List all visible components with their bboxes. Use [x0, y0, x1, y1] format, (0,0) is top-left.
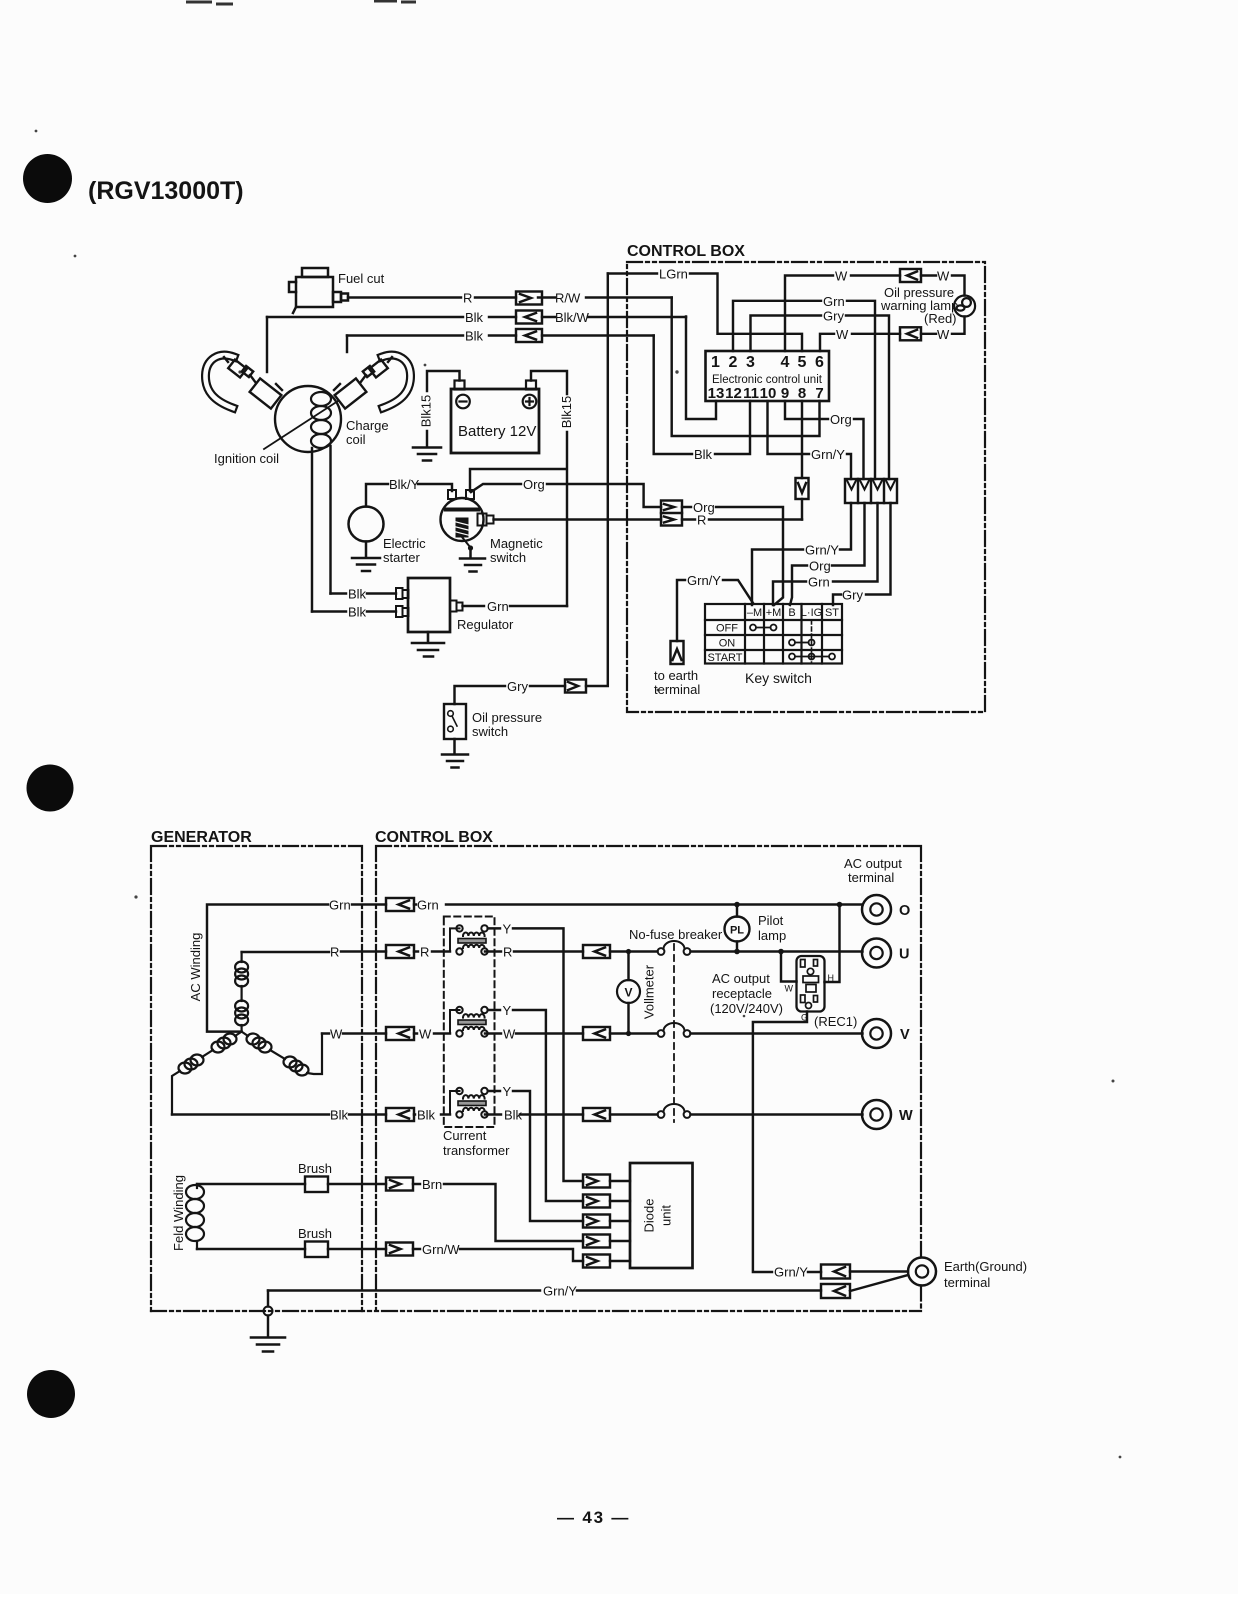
control box border (bottom diagram)	[151, 846, 921, 1311]
wire Blk/W to pin13	[686, 317, 716, 420]
svg-text:Electric: Electric	[383, 536, 426, 551]
svg-text:Y: Y	[503, 921, 512, 936]
generator border (bottom diagram)	[151, 846, 362, 1311]
wire brush2 row GrnW	[197, 1249, 583, 1261]
svg-text:OFF: OFF	[716, 623, 738, 635]
battery 12V	[451, 381, 539, 454]
wire receptacle H	[825, 905, 840, 983]
connector Blk row3	[516, 329, 542, 342]
svg-text:terminal: terminal	[944, 1275, 990, 1290]
connector GrnY earth 2	[821, 1284, 850, 1298]
wire Grn row (pin2)	[733, 301, 875, 479]
svg-text:Charge: Charge	[346, 418, 389, 433]
svg-text:–M: –M	[747, 607, 762, 619]
current transformer dashed box	[444, 917, 495, 1128]
svg-text:Blk: Blk	[694, 447, 713, 462]
connector inline pin8	[796, 478, 809, 499]
wire W row1 to lamp	[785, 276, 965, 352]
svg-text:L·IG: L·IG	[801, 607, 822, 619]
no-fuse breaker pole U	[658, 941, 691, 955]
connector R 1	[386, 945, 414, 958]
svg-text:switch: switch	[472, 724, 508, 739]
svg-text:Oil pressure: Oil pressure	[472, 710, 542, 725]
receptacle pin letters	[785, 973, 835, 1023]
svg-text:B: B	[788, 607, 795, 619]
wire left cap drop	[266, 317, 268, 372]
wire Gry row	[455, 274, 608, 705]
svg-text:— 43 —: — 43 —	[557, 1508, 630, 1527]
svg-text:W: W	[330, 1027, 343, 1042]
connector W row2	[900, 327, 921, 340]
svg-text:R: R	[503, 945, 512, 960]
earth ground terminal	[908, 1258, 936, 1286]
ground (oil pressure switch)	[442, 739, 468, 768]
wire Grn row (control box)	[414, 903, 863, 905]
control box border (top diagram)	[627, 262, 985, 712]
svg-text:Grn/Y: Grn/Y	[543, 1284, 577, 1299]
svg-text:+M: +M	[766, 607, 782, 619]
svg-text:3: 3	[746, 354, 755, 371]
key switch header labels	[707, 607, 839, 664]
svg-text:transformer: transformer	[443, 1143, 510, 1158]
wire pin10 GrnY row	[768, 401, 852, 479]
svg-text:(REC1): (REC1)	[814, 1014, 857, 1029]
current transformer 1	[450, 925, 488, 955]
wire Blk label row to pin11	[654, 336, 750, 455]
svg-text:Brn: Brn	[422, 1177, 442, 1192]
svg-text:Blk/Y: Blk/Y	[389, 477, 420, 492]
connector Blk/W	[516, 311, 542, 324]
svg-text:Brush: Brush	[298, 1161, 332, 1176]
junction dot receptacle H tap	[837, 902, 843, 908]
svg-text:11: 11	[743, 385, 759, 402]
ignition coil circle	[275, 386, 341, 452]
svg-text:Blk: Blk	[417, 1108, 436, 1123]
svg-text:W: W	[937, 269, 950, 284]
svg-text:Ignition coil: Ignition coil	[214, 451, 279, 466]
wire receptacle G to GrnY	[753, 1012, 821, 1273]
svg-text:unit: unit	[658, 1205, 673, 1226]
electronic control unit	[706, 351, 830, 401]
wire Grn from regulator	[463, 605, 568, 607]
wire LGrn row	[608, 274, 802, 352]
oil pressure warning lamp	[954, 296, 975, 317]
svg-text:Grn/Y: Grn/Y	[687, 573, 721, 588]
ECU pin numbers top	[708, 354, 824, 402]
connector W 1	[386, 1027, 414, 1040]
connector Gry	[565, 680, 586, 693]
svg-text:Org: Org	[523, 477, 545, 492]
svg-text:Blk: Blk	[330, 1108, 349, 1123]
wire Grn key row	[773, 503, 878, 605]
svg-text:G: G	[801, 1013, 808, 1023]
svg-text:Gry: Gry	[842, 588, 863, 603]
spark plug cap left	[205, 355, 282, 408]
wire receptacle W	[781, 952, 797, 982]
connector Blk 2	[583, 1108, 610, 1121]
svg-text:R: R	[463, 291, 472, 306]
key contacts START	[789, 654, 835, 660]
current transformer 2	[450, 1007, 488, 1037]
AC output terminal W	[862, 1100, 891, 1129]
svg-text:R: R	[330, 945, 339, 960]
connector GrnW	[386, 1243, 413, 1256]
svg-text:W: W	[899, 1108, 913, 1124]
wire Y3	[488, 1091, 583, 1221]
connector Blk 1	[386, 1108, 414, 1121]
wire Org from magnetic switch	[471, 484, 661, 507]
svg-text:5: 5	[798, 354, 807, 371]
connector bank x4	[845, 479, 897, 503]
svg-text:Current: Current	[443, 1128, 487, 1143]
svg-text:R: R	[420, 945, 429, 960]
wire R row	[242, 950, 863, 953]
svg-text:coil: coil	[346, 432, 366, 447]
svg-text:2: 2	[729, 354, 738, 371]
svg-text:W: W	[836, 327, 849, 342]
svg-text:Grn/W: Grn/W	[422, 1242, 460, 1257]
svg-text:switch: switch	[490, 550, 526, 565]
svg-text:AC output: AC output	[844, 856, 902, 871]
wire Gry row (pin3)	[751, 316, 890, 480]
svg-text:GENERATOR: GENERATOR	[151, 829, 252, 846]
svg-text:Blk15: Blk15	[559, 396, 574, 429]
connector W row1	[900, 269, 921, 282]
svg-text:V: V	[900, 1027, 910, 1043]
svg-text:Pilot: Pilot	[758, 913, 784, 928]
regulator	[396, 578, 463, 632]
svg-text:Electronic control unit: Electronic control unit	[712, 374, 823, 386]
wire Y1	[488, 928, 583, 1181]
svg-text:Magnetic: Magnetic	[490, 536, 543, 551]
svg-text:Org: Org	[830, 412, 852, 427]
svg-text:12: 12	[725, 385, 742, 402]
scan specks	[35, 130, 1122, 1459]
wire Blk to regulator upper	[331, 592, 397, 594]
svg-text:Diode: Diode	[641, 1199, 656, 1233]
wire W row	[322, 1032, 863, 1034]
connector Grn	[386, 898, 414, 911]
ground (starter)	[352, 542, 380, 572]
svg-text:Vollmeter: Vollmeter	[641, 964, 656, 1019]
svg-text:(RGV13000T): (RGV13000T)	[88, 177, 244, 205]
wire R out of connector	[682, 518, 802, 520]
connector R 2	[583, 945, 610, 958]
wire Blk row 3	[347, 334, 654, 336]
ground (battery)	[413, 448, 441, 461]
AC winding star	[172, 952, 322, 1115]
svg-text:LGrn: LGrn	[659, 267, 688, 282]
svg-text:1: 1	[711, 354, 720, 371]
svg-text:(120V/240V): (120V/240V)	[710, 1001, 783, 1016]
ground (regulator)	[412, 632, 444, 657]
svg-text:Blk: Blk	[348, 605, 367, 620]
AC output terminal V	[862, 1019, 891, 1048]
svg-text:Grn: Grn	[823, 294, 845, 309]
svg-text:Feld Winding: Feld Winding	[171, 1175, 186, 1251]
svg-text:9: 9	[781, 385, 789, 402]
svg-text:O: O	[899, 903, 910, 919]
diode unit box	[630, 1163, 693, 1268]
wire Grn neutral	[207, 905, 386, 1032]
svg-text:Blk: Blk	[504, 1108, 523, 1123]
wire Org key row	[790, 503, 865, 605]
key switch table	[705, 604, 842, 664]
wire GrnY to earth connector	[677, 580, 685, 641]
svg-text:Fuel cut: Fuel cut	[338, 271, 385, 286]
svg-text:U: U	[899, 947, 909, 963]
charge coil lead wires	[312, 446, 331, 612]
svg-text:Grn: Grn	[417, 898, 439, 913]
svg-text:Grn/Y: Grn/Y	[805, 543, 839, 558]
binder hole dot 2	[27, 765, 74, 812]
key contacts OFF	[750, 625, 777, 631]
key contacts ON	[789, 640, 815, 646]
terminal letters	[899, 903, 913, 1124]
pilot lamp	[736, 905, 738, 952]
wire brush1 row Brn	[197, 1184, 583, 1241]
wire right cap drop	[346, 336, 348, 353]
svg-text:to earth: to earth	[654, 668, 698, 683]
svg-text:Grn/Y: Grn/Y	[811, 447, 845, 462]
wire Blk to regulator lower	[312, 610, 396, 612]
svg-text:W: W	[785, 984, 794, 994]
svg-text:AC Winding: AC Winding	[188, 933, 203, 1002]
svg-text:Y: Y	[503, 1084, 512, 1099]
current transformer 3	[450, 1088, 488, 1118]
svg-text:terminal: terminal	[654, 682, 700, 697]
svg-text:Blk/W: Blk/W	[555, 310, 590, 325]
svg-text:Blk: Blk	[465, 329, 484, 344]
svg-text:W: W	[937, 327, 950, 342]
svg-text:7: 7	[815, 385, 823, 402]
wire W row2 from lamp	[820, 317, 965, 352]
wire R to R/W (fuel cut row)	[348, 296, 672, 298]
connector GrnY earth 1	[821, 1265, 850, 1279]
svg-text:R/W: R/W	[555, 291, 581, 306]
svg-text:Grn/Y: Grn/Y	[774, 1265, 808, 1280]
double connector Org/R	[661, 501, 682, 526]
electric starter	[349, 507, 384, 542]
svg-text:Gry: Gry	[507, 679, 528, 694]
field winding coil	[186, 1184, 204, 1249]
no-fuse breaker pole V	[658, 1023, 691, 1037]
svg-text:H: H	[828, 973, 835, 983]
spark plug cap right	[334, 355, 411, 408]
svg-text:PL: PL	[730, 925, 744, 937]
svg-text:Y: Y	[503, 1003, 512, 1018]
charge coil helix	[311, 392, 331, 448]
brush 2	[305, 1242, 328, 1258]
svg-text:Grn: Grn	[808, 575, 830, 590]
svg-text:10: 10	[760, 385, 777, 402]
wire Blk/Y	[366, 484, 452, 507]
svg-text:R: R	[697, 513, 706, 528]
svg-text:Blk: Blk	[465, 310, 484, 325]
svg-text:ST: ST	[825, 607, 839, 619]
wire GrnY key row	[752, 503, 851, 605]
wire pin9 Org row	[785, 401, 864, 479]
svg-text:W: W	[419, 1027, 432, 1042]
svg-text:lamp: lamp	[758, 928, 786, 943]
junction to frame ground	[267, 1291, 269, 1307]
voltmeter	[617, 980, 640, 1003]
svg-text:Key switch: Key switch	[745, 670, 812, 686]
svg-text:AC output: AC output	[712, 971, 770, 986]
wire Blk row	[172, 1113, 863, 1115]
battery negative wire	[427, 371, 460, 447]
ECU pin numbers bottom	[708, 385, 824, 402]
svg-text:4: 4	[781, 354, 790, 371]
svg-text:(Red): (Red)	[924, 311, 957, 326]
svg-text:CONTROL BOX: CONTROL BOX	[375, 829, 493, 846]
wire GrnY earth row	[850, 1272, 908, 1292]
fuel cut valve	[289, 268, 348, 313]
brush 1	[305, 1177, 328, 1193]
svg-text:Blk: Blk	[348, 587, 367, 602]
svg-text:starter: starter	[383, 550, 421, 565]
diode connectors x5	[583, 1175, 630, 1268]
AC receptacle	[797, 956, 825, 1012]
svg-text:Earth(Ground): Earth(Ground)	[944, 1259, 1027, 1274]
svg-text:8: 8	[798, 385, 806, 402]
wire Org row out of connector	[682, 507, 783, 605]
magnetic switch	[441, 490, 494, 551]
oil pressure switch	[444, 704, 466, 739]
svg-text:Grn: Grn	[487, 599, 509, 614]
svg-text:Org: Org	[809, 559, 831, 574]
svg-text:Brush: Brush	[298, 1226, 332, 1241]
breaker linkage dashed	[673, 944, 675, 1122]
svg-text:V: V	[624, 986, 632, 1000]
wire Gry key row	[833, 503, 891, 605]
svg-text:START: START	[707, 652, 742, 664]
svg-text:Battery 12V: Battery 12V	[458, 423, 536, 440]
svg-text:6: 6	[815, 354, 824, 371]
ground (generator frame)	[251, 1338, 285, 1352]
junction dot pilot tap	[734, 902, 740, 908]
svg-text:ON: ON	[719, 638, 736, 650]
connector Brn	[386, 1178, 413, 1191]
svg-text:Grn: Grn	[329, 898, 351, 913]
svg-text:receptacle: receptacle	[712, 986, 772, 1001]
wire GrnY bottom row	[268, 1289, 821, 1291]
binder hole dot 3	[27, 1370, 75, 1418]
connector R/W	[516, 292, 542, 305]
svg-text:terminal: terminal	[848, 870, 894, 885]
svg-text:Blk15: Blk15	[418, 395, 433, 428]
AC output terminal O	[862, 895, 891, 924]
wire Y2	[488, 1010, 583, 1201]
svg-text:CONTROL BOX: CONTROL BOX	[627, 243, 745, 260]
ground (magnetic switch)	[460, 550, 485, 572]
svg-text:W: W	[503, 1027, 516, 1042]
svg-text:13: 13	[708, 385, 725, 402]
top edge scan marks	[186, 1, 416, 4]
wire R from magnetic switch	[494, 518, 662, 520]
wire Blk to Blk/W row	[267, 316, 686, 318]
svg-text:No-fuse breaker: No-fuse breaker	[629, 927, 723, 942]
connector W 2	[583, 1027, 610, 1040]
svg-text:Regulator: Regulator	[457, 617, 514, 632]
battery positive wire	[470, 371, 567, 606]
binder hole dot 1	[23, 154, 72, 203]
wire R/W to pin7	[672, 298, 820, 437]
AC output terminal U	[862, 939, 891, 968]
svg-text:W: W	[835, 269, 848, 284]
no-fuse breaker pole W	[658, 1104, 691, 1118]
ignition coil pointer line	[264, 401, 338, 449]
svg-text:Gry: Gry	[823, 309, 844, 324]
earth connector	[671, 641, 684, 664]
wire pin8 to R via connector	[801, 401, 803, 520]
